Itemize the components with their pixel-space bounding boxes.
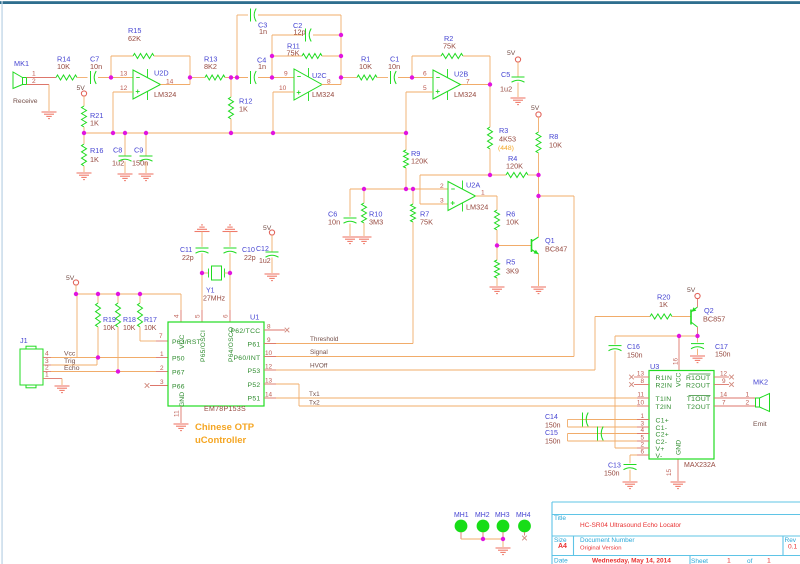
- svg-text:2: 2: [640, 441, 644, 448]
- svg-text:P50: P50: [172, 356, 185, 363]
- svg-text:1n: 1n: [258, 62, 266, 71]
- svg-text:1: 1: [32, 71, 36, 78]
- svg-text:8K2: 8K2: [204, 62, 217, 71]
- svg-text:5V: 5V: [687, 287, 696, 294]
- svg-text:10n: 10n: [90, 62, 102, 71]
- svg-text:LM324: LM324: [454, 90, 476, 99]
- svg-text:V-: V-: [656, 453, 663, 460]
- svg-text:P66: P66: [172, 384, 185, 391]
- svg-text:13: 13: [120, 71, 128, 78]
- svg-text:5: 5: [423, 85, 427, 92]
- svg-text:VCC: VCC: [179, 335, 186, 349]
- svg-text:GND: GND: [676, 440, 683, 455]
- svg-text:2: 2: [746, 399, 750, 406]
- svg-text:5V: 5V: [66, 275, 75, 282]
- svg-text:5: 5: [195, 314, 202, 318]
- svg-text:BC857: BC857: [703, 315, 725, 324]
- svg-text:1u2: 1u2: [500, 85, 512, 94]
- svg-text:1u2: 1u2: [112, 159, 124, 168]
- svg-text:10K: 10K: [144, 325, 157, 332]
- svg-text:1n: 1n: [259, 27, 267, 36]
- svg-text:T1OUT: T1OUT: [687, 396, 711, 403]
- svg-text:1K: 1K: [90, 119, 99, 128]
- svg-text:(448): (448): [498, 145, 514, 152]
- svg-text:MAX232A: MAX232A: [684, 462, 716, 469]
- svg-text:10: 10: [279, 85, 287, 92]
- svg-text:U3: U3: [650, 362, 659, 371]
- svg-text:C2+: C2+: [656, 432, 670, 439]
- svg-text:120K: 120K: [411, 157, 428, 166]
- svg-text:10K: 10K: [359, 62, 372, 71]
- svg-text:150n: 150n: [604, 471, 620, 478]
- svg-text:2: 2: [32, 78, 36, 85]
- svg-text:10K: 10K: [123, 325, 136, 332]
- svg-text:C12: C12: [256, 246, 269, 253]
- svg-text:U1: U1: [250, 313, 259, 322]
- svg-text:1K: 1K: [90, 155, 99, 164]
- svg-text:150n: 150n: [545, 439, 561, 446]
- svg-text:3: 3: [160, 379, 164, 386]
- svg-text:T2IN: T2IN: [656, 404, 672, 411]
- svg-text:2: 2: [160, 365, 164, 372]
- svg-text:P52: P52: [248, 382, 261, 389]
- svg-text:MK2: MK2: [753, 378, 768, 387]
- svg-text:C15: C15: [545, 430, 558, 437]
- svg-text:C11: C11: [180, 247, 192, 254]
- svg-text:8: 8: [267, 323, 271, 330]
- svg-text:LM324: LM324: [312, 90, 334, 99]
- svg-text:5V: 5V: [507, 50, 516, 57]
- svg-text:150n: 150n: [715, 352, 731, 359]
- svg-text:10: 10: [637, 399, 645, 406]
- svg-text:V+: V+: [656, 446, 665, 453]
- svg-text:MH2: MH2: [475, 512, 490, 519]
- svg-text:U2D: U2D: [154, 69, 169, 78]
- svg-text:uController: uController: [195, 435, 246, 446]
- svg-text:Document Number: Document Number: [580, 537, 635, 544]
- svg-text:14: 14: [720, 391, 728, 398]
- svg-text:J1: J1: [20, 336, 28, 345]
- svg-text:R1IN: R1IN: [656, 375, 673, 382]
- svg-text:C16: C16: [627, 344, 640, 351]
- svg-text:C14: C14: [545, 414, 558, 421]
- svg-text:1K: 1K: [659, 300, 668, 309]
- svg-text:6: 6: [640, 448, 644, 455]
- svg-text:C17: C17: [715, 344, 728, 351]
- svg-text:27MHz: 27MHz: [203, 296, 226, 303]
- svg-text:10K: 10K: [103, 325, 116, 332]
- svg-text:1u2: 1u2: [259, 258, 271, 265]
- svg-text:Sheet: Sheet: [691, 558, 708, 564]
- svg-text:MH3: MH3: [495, 512, 510, 519]
- svg-text:16: 16: [673, 357, 680, 365]
- svg-text:Tx1: Tx1: [309, 391, 320, 398]
- svg-text:Vcc: Vcc: [64, 351, 76, 358]
- svg-text:12: 12: [265, 363, 273, 370]
- svg-text:Date: Date: [554, 558, 568, 564]
- svg-text:0.1: 0.1: [788, 544, 797, 551]
- svg-text:MH1: MH1: [454, 512, 469, 519]
- svg-text:1: 1: [640, 413, 644, 420]
- svg-text:EM78P153S: EM78P153S: [204, 406, 246, 413]
- svg-text:HC-SR04 Ultrasound Echo Locato: HC-SR04 Ultrasound Echo Locator: [580, 522, 682, 529]
- svg-text:P53: P53: [248, 368, 261, 375]
- svg-text:3M3: 3M3: [369, 218, 383, 227]
- svg-text:Wednesday, May 14, 2014: Wednesday, May 14, 2014: [592, 558, 671, 564]
- svg-text:75K: 75K: [420, 218, 433, 227]
- svg-text:P65/OSCI: P65/OSCI: [200, 330, 207, 362]
- svg-text:R17: R17: [144, 317, 157, 324]
- svg-text:13: 13: [637, 370, 645, 377]
- svg-text:10: 10: [265, 350, 273, 357]
- svg-text:5V: 5V: [263, 225, 272, 232]
- svg-text:15: 15: [666, 468, 673, 476]
- svg-text:1: 1: [746, 391, 750, 398]
- svg-text:R16: R16: [90, 146, 103, 155]
- svg-text:11: 11: [174, 410, 181, 417]
- svg-text:4: 4: [640, 427, 644, 434]
- svg-text:150n: 150n: [545, 423, 561, 430]
- svg-text:MK1: MK1: [14, 59, 29, 68]
- svg-text:1: 1: [160, 351, 164, 358]
- svg-text:P51: P51: [248, 396, 261, 403]
- svg-text:Echo: Echo: [64, 365, 80, 372]
- svg-text:1: 1: [727, 558, 731, 564]
- svg-text:3K9: 3K9: [506, 267, 519, 276]
- svg-text:C2-: C2-: [656, 439, 668, 446]
- svg-text:R2OUT: R2OUT: [686, 383, 711, 390]
- svg-text:C1+: C1+: [656, 418, 670, 425]
- svg-text:C9: C9: [134, 146, 143, 155]
- svg-text:4: 4: [45, 351, 49, 358]
- svg-text:14: 14: [265, 391, 273, 398]
- svg-text:R1OUT: R1OUT: [686, 375, 711, 382]
- svg-text:7: 7: [722, 399, 726, 406]
- svg-text:150n: 150n: [627, 353, 643, 360]
- svg-text:1: 1: [767, 558, 771, 564]
- svg-text:U2B: U2B: [454, 70, 468, 79]
- svg-text:6: 6: [423, 71, 427, 78]
- svg-text:LM324: LM324: [466, 203, 488, 212]
- svg-text:6: 6: [223, 314, 230, 318]
- svg-text:7: 7: [466, 79, 470, 86]
- svg-text:Trig: Trig: [64, 358, 76, 365]
- svg-text:3: 3: [440, 198, 444, 205]
- svg-text:5: 5: [640, 434, 644, 441]
- svg-text:5V: 5V: [77, 85, 86, 92]
- svg-text:R19: R19: [103, 317, 116, 324]
- svg-text:1: 1: [481, 190, 485, 197]
- svg-text:Title: Title: [554, 515, 566, 522]
- svg-text:9: 9: [267, 337, 271, 344]
- svg-text:HVOff: HVOff: [310, 363, 328, 370]
- svg-text:22p: 22p: [244, 255, 256, 262]
- svg-text:12p: 12p: [294, 28, 306, 37]
- svg-text:75K: 75K: [443, 42, 456, 51]
- svg-text:VCC: VCC: [676, 373, 683, 387]
- svg-text:7: 7: [159, 333, 163, 340]
- svg-text:MH4: MH4: [516, 512, 531, 519]
- svg-text:9: 9: [284, 71, 288, 78]
- svg-text:2: 2: [440, 183, 444, 190]
- svg-text:C10: C10: [242, 247, 255, 254]
- svg-text:Signal: Signal: [310, 349, 328, 356]
- svg-text:R18: R18: [123, 317, 136, 324]
- svg-text:10K: 10K: [506, 218, 519, 227]
- svg-text:4K53: 4K53: [499, 135, 516, 144]
- svg-text:Y1: Y1: [206, 288, 215, 295]
- svg-text:4: 4: [174, 314, 181, 318]
- svg-text:Tx2: Tx2: [309, 400, 320, 407]
- svg-text:C13: C13: [608, 463, 621, 470]
- svg-text:Emit: Emit: [753, 421, 767, 428]
- svg-text:62K: 62K: [128, 34, 141, 43]
- svg-text:150n: 150n: [132, 159, 148, 168]
- svg-text:C8: C8: [113, 146, 122, 155]
- svg-text:8: 8: [640, 378, 644, 385]
- svg-text:Receive: Receive: [13, 98, 38, 105]
- svg-text:9: 9: [722, 378, 726, 385]
- svg-text:LM324: LM324: [154, 90, 176, 99]
- svg-text:Threshold: Threshold: [310, 336, 339, 343]
- svg-text:R2IN: R2IN: [656, 383, 673, 390]
- svg-text:75K: 75K: [287, 49, 300, 58]
- svg-text:R5: R5: [506, 258, 515, 267]
- svg-text:T2OUT: T2OUT: [687, 404, 711, 411]
- svg-text:13: 13: [265, 377, 273, 384]
- svg-text:Chinese OTP: Chinese OTP: [195, 422, 255, 433]
- svg-text:10n: 10n: [328, 218, 340, 227]
- svg-text:12: 12: [720, 370, 728, 377]
- svg-text:BC847: BC847: [545, 245, 567, 254]
- svg-text:5V: 5V: [531, 105, 540, 112]
- svg-text:GND: GND: [179, 392, 186, 407]
- svg-text:1: 1: [45, 372, 49, 379]
- svg-text:P62/TCC: P62/TCC: [230, 328, 260, 335]
- svg-text:11: 11: [637, 391, 644, 398]
- svg-text:P61: P61: [248, 342, 261, 349]
- svg-text:22p: 22p: [182, 255, 194, 262]
- svg-text:A4: A4: [558, 543, 567, 550]
- svg-text:10K: 10K: [57, 62, 70, 71]
- svg-text:P63/RST: P63/RST: [172, 339, 201, 346]
- svg-text:C5: C5: [501, 70, 510, 79]
- svg-text:P67: P67: [172, 370, 185, 377]
- svg-text:120K: 120K: [506, 162, 523, 171]
- svg-text:T1IN: T1IN: [656, 396, 672, 403]
- svg-text:10K: 10K: [549, 141, 562, 150]
- svg-text:Original Version: Original Version: [580, 546, 622, 552]
- svg-text:of: of: [747, 558, 753, 564]
- svg-text:U2C: U2C: [312, 71, 327, 80]
- svg-text:12: 12: [120, 85, 128, 92]
- svg-text:2: 2: [45, 365, 49, 372]
- svg-text:P60/INT: P60/INT: [233, 355, 260, 362]
- svg-text:10n: 10n: [388, 62, 400, 71]
- svg-text:U2A: U2A: [466, 181, 480, 190]
- svg-text:1K: 1K: [239, 105, 248, 114]
